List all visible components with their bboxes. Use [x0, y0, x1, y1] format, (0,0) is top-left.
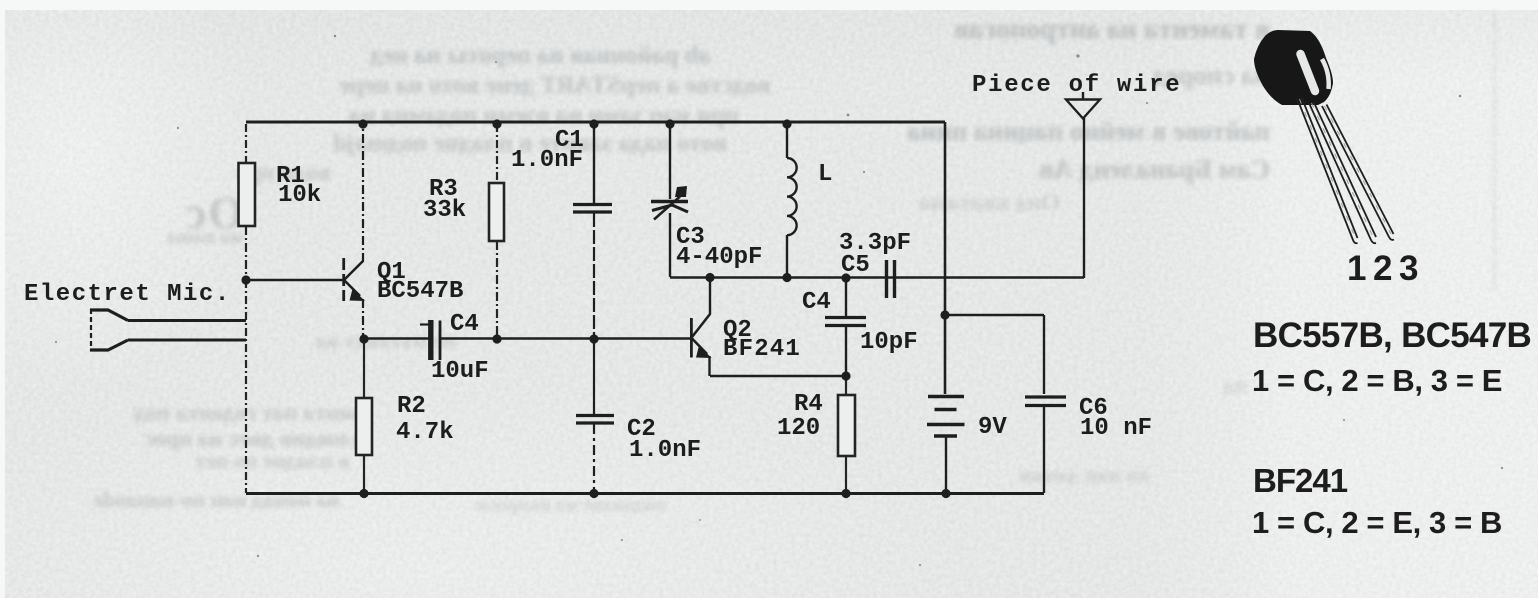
- svg-text:BC547B: BC547B: [377, 278, 463, 305]
- svg-text:1 = C, 2 = E, 3 = B: 1 = C, 2 = E, 3 = B: [1252, 505, 1502, 540]
- label Electret Mic.: [24, 281, 231, 308]
- wire battery to ground: [945, 437, 947, 493]
- svg-text:R4: R4: [794, 391, 823, 418]
- capacitor C2: [576, 339, 614, 493]
- wire C6 branch: [945, 315, 1044, 493]
- svg-text:10pF: 10pF: [860, 329, 918, 356]
- label C4 10pF: [802, 289, 918, 356]
- label R4 120: [777, 391, 823, 442]
- node Q1 emitter / C4: [359, 334, 368, 343]
- resistor R3: [489, 124, 504, 338]
- node L top at rail: [782, 119, 791, 128]
- wire left vertical (mic/ground): [245, 280, 247, 493]
- node Q2 collector on mid line: [705, 273, 714, 282]
- antenna (piece of wire): [1066, 92, 1100, 119]
- node Q1 collector at rail: [358, 119, 367, 128]
- battery 9V: [927, 397, 965, 437]
- svg-text:BF241: BF241: [723, 336, 801, 363]
- wire oscillator mid line (tank to antenna): [670, 276, 1084, 279]
- wire top supply rail: [246, 121, 945, 124]
- svg-text:1 = C, 2 = B, 3 = E: 1 = C, 2 = B, 3 = E: [1252, 363, 1502, 398]
- TO-92 lead 1: [1297, 97, 1358, 243]
- node R3 top at rail: [492, 119, 501, 128]
- wire base line (C4 to Q2 base): [364, 337, 690, 340]
- node R4 at ground rail: [841, 489, 850, 498]
- label C3 4-40pF: [676, 224, 762, 271]
- electrolytic capacitor C4 10uF: [420, 320, 440, 360]
- label R3 33k: [423, 176, 466, 224]
- electret microphone: [90, 309, 246, 351]
- label R2 4.7k: [396, 393, 454, 446]
- label R1 10k: [276, 163, 321, 209]
- label Piece of wire: [972, 72, 1181, 99]
- label Q1 BC547B: [377, 259, 463, 305]
- svg-text:Electret Mic.: Electret Mic.: [24, 281, 231, 308]
- capacitor C4 10pF: [825, 278, 866, 376]
- node battery at ground rail: [941, 489, 950, 498]
- transistor Q1: [344, 124, 365, 339]
- label C2 1.0nF: [627, 416, 701, 464]
- wire Q2 emitter line: [710, 375, 846, 378]
- node C1 top at rail: [589, 119, 598, 128]
- svg-text:1 2 3: 1 2 3: [1347, 249, 1418, 288]
- svg-text:R2: R2: [397, 393, 426, 420]
- svg-text:120: 120: [777, 415, 820, 442]
- svg-text:33k: 33k: [423, 197, 466, 224]
- svg-text:Piece of wire: Piece of wire: [972, 72, 1181, 99]
- resistor R1: [239, 124, 256, 280]
- label pinout 1=C 2=E 3=B: [1252, 505, 1502, 540]
- inductor L: [787, 122, 797, 277]
- svg-text:10k: 10k: [278, 182, 321, 209]
- svg-text:10uF: 10uF: [431, 358, 489, 385]
- node emitter/R4 junction: [841, 371, 850, 380]
- svg-text:1.0nF: 1.0nF: [629, 437, 701, 464]
- svg-text:4.7k: 4.7k: [396, 419, 454, 446]
- capacitor C5 3.3pF: [887, 260, 895, 298]
- label L: [818, 161, 832, 188]
- wire Q1 base: [246, 279, 344, 282]
- capacitor C1: [573, 122, 612, 338]
- svg-text:9V: 9V: [978, 414, 1007, 441]
- label C4 10uF: [431, 311, 489, 385]
- node R3 bottom on base line: [492, 334, 501, 343]
- label 3.3pF C5: [839, 230, 911, 279]
- resistor R2: [356, 339, 372, 493]
- resistor R4: [838, 376, 855, 493]
- label Q2 BF241: [723, 317, 801, 363]
- wire bottom ground rail: [246, 492, 1044, 495]
- node battery/C6 branch: [940, 310, 949, 319]
- TO-92 lead 3: [1322, 105, 1394, 240]
- node C3 top at rail: [665, 119, 674, 128]
- label BC557B, BC547B: [1253, 316, 1531, 355]
- svg-text:10 nF: 10 nF: [1080, 415, 1152, 442]
- label 9V: [978, 414, 1007, 441]
- node L bottom on mid line: [782, 273, 791, 282]
- node C2 at ground rail: [589, 489, 598, 498]
- node C4 10pF top on mid line: [841, 273, 850, 282]
- svg-text:1.0nF: 1.0nF: [511, 147, 583, 174]
- capacitor C6: [1025, 397, 1066, 406]
- svg-text:C4: C4: [450, 311, 479, 338]
- node mic/base junction: [241, 275, 250, 284]
- label pins 1 2 3: [1347, 249, 1418, 288]
- svg-text:L: L: [818, 161, 832, 188]
- label BF241: [1253, 462, 1348, 499]
- label C6 10 nF: [1079, 395, 1152, 442]
- trimmer capacitor C3: [651, 122, 688, 277]
- wire battery vertical: [944, 122, 947, 394]
- svg-text:4-40pF: 4-40pF: [676, 244, 762, 271]
- label pinout 1=C 2=B 3=E: [1252, 363, 1502, 398]
- TO-92 package body: [1254, 30, 1333, 105]
- transistor Q2: [691, 277, 711, 376]
- node C1/C2 on base line: [589, 334, 598, 343]
- svg-text:BC557B, BC547B: BC557B, BC547B: [1253, 316, 1531, 355]
- node R2 at ground rail: [359, 489, 368, 498]
- svg-text:BF241: BF241: [1253, 462, 1348, 499]
- TO-92 lead 2: [1309, 102, 1376, 244]
- svg-text:C4: C4: [802, 289, 831, 316]
- label C1 1.0nF: [511, 127, 584, 174]
- wire antenna vertical: [1083, 118, 1085, 278]
